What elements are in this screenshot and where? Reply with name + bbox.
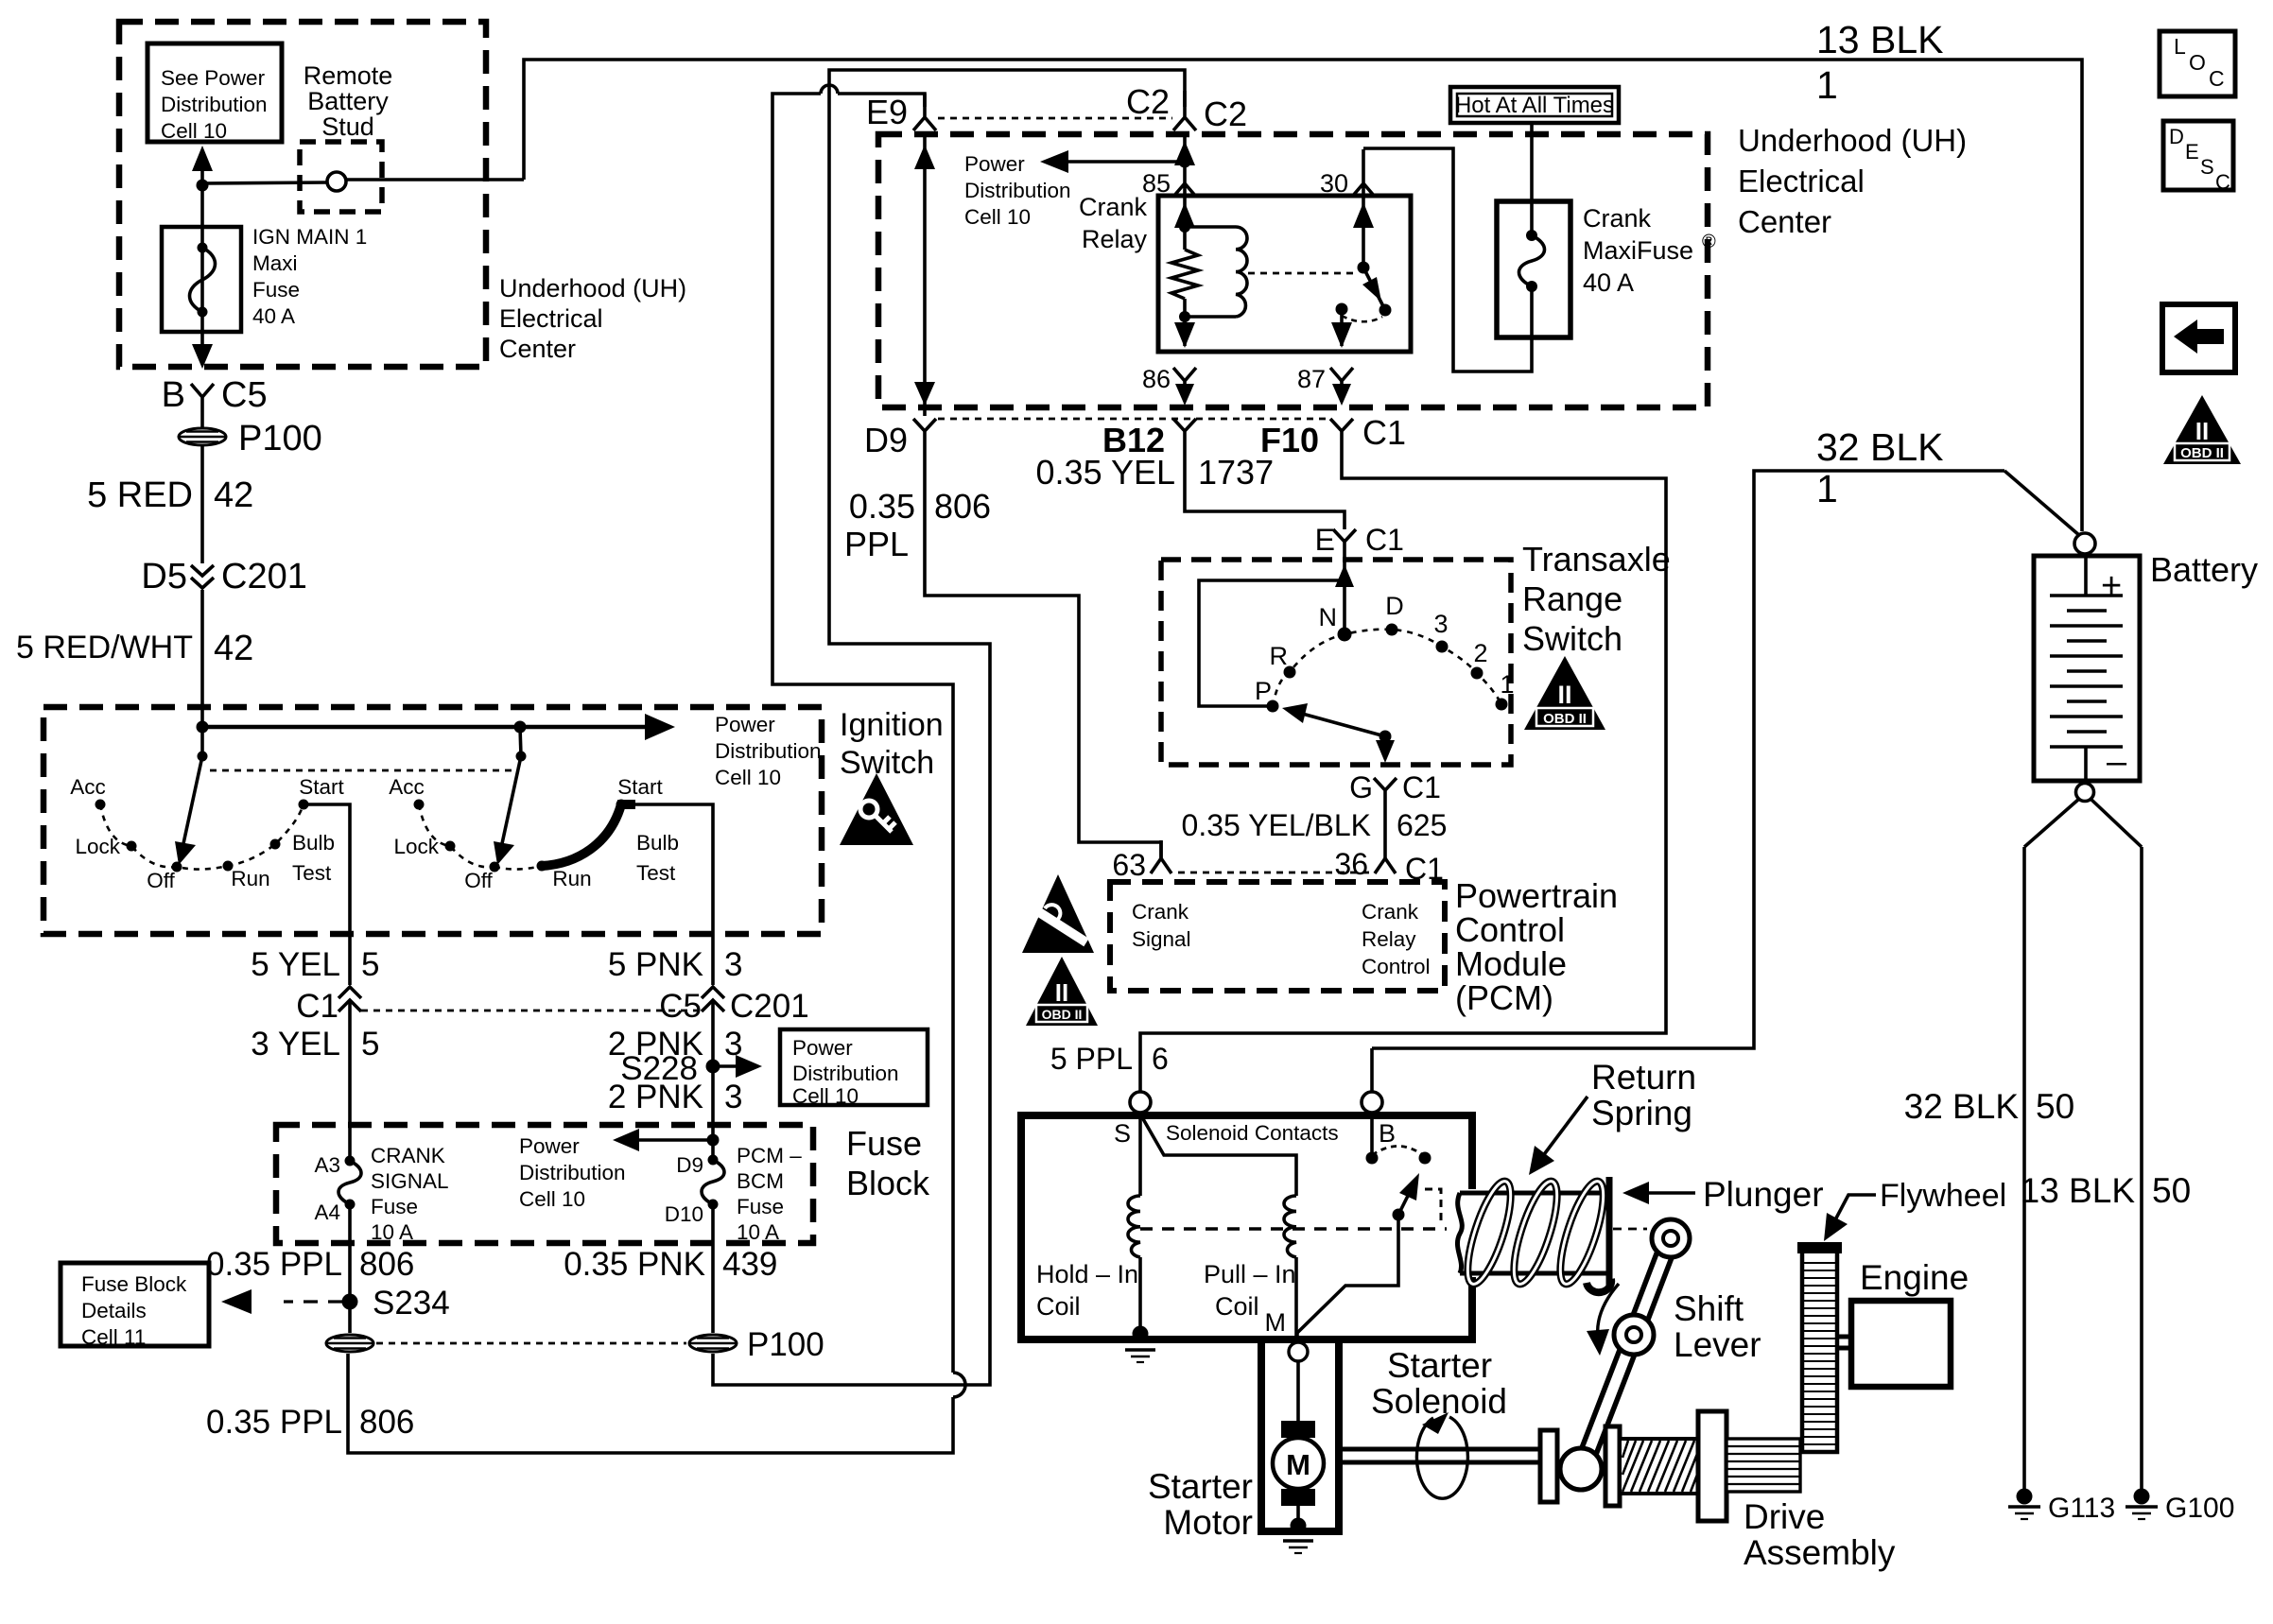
svg-text:Control: Control (1362, 955, 1431, 978)
svg-text:Motor: Motor (1163, 1503, 1253, 1542)
svg-text:C: C (2209, 66, 2225, 91)
svg-text:C1: C1 (1365, 523, 1404, 557)
svg-text:MaxiFuse: MaxiFuse (1583, 236, 1693, 265)
svg-text:C1: C1 (1362, 413, 1406, 452)
svg-text:Crank: Crank (1583, 204, 1652, 233)
svg-text:86: 86 (1142, 365, 1171, 393)
svg-text:13 BLK: 13 BLK (1816, 18, 1944, 61)
svg-text:E: E (1315, 523, 1335, 557)
svg-text:5 RED: 5 RED (87, 475, 193, 515)
svg-text:D: D (1385, 592, 1404, 620)
svg-text:C5: C5 (659, 988, 702, 1025)
svg-text:Fuse: Fuse (252, 278, 300, 302)
svg-text:Power: Power (715, 713, 775, 736)
svg-text:42: 42 (214, 475, 253, 515)
svg-text:Distribution: Distribution (792, 1062, 899, 1085)
svg-text:806: 806 (359, 1404, 414, 1441)
svg-text:87: 87 (1297, 365, 1326, 393)
svg-text:5 PNK: 5 PNK (608, 946, 703, 983)
svg-text:S: S (2200, 155, 2214, 179)
svg-text:Center: Center (1738, 204, 1831, 239)
svg-text:10 A: 10 A (737, 1220, 779, 1244)
svg-text:P100: P100 (238, 419, 322, 458)
svg-text:PPL: PPL (844, 525, 909, 563)
svg-text:5 RED/WHT: 5 RED/WHT (16, 630, 193, 665)
svg-text:Hot At All Times: Hot At All Times (1455, 93, 1614, 118)
svg-text:Maxi: Maxi (252, 251, 298, 275)
svg-text:Fuse: Fuse (846, 1124, 922, 1163)
svg-text:Battery: Battery (2150, 550, 2258, 589)
svg-text:3 YEL: 3 YEL (251, 1026, 340, 1063)
svg-text:E: E (2185, 140, 2199, 164)
svg-text:Block: Block (846, 1164, 930, 1202)
svg-text:Acc: Acc (70, 775, 106, 799)
svg-text:Powertrain: Powertrain (1455, 876, 1618, 915)
svg-text:Return: Return (1591, 1058, 1696, 1097)
svg-text:13 BLK: 13 BLK (2021, 1171, 2136, 1210)
svg-text:30: 30 (1320, 169, 1348, 198)
svg-text:OBD II: OBD II (2180, 445, 2224, 461)
svg-text:C5: C5 (221, 375, 268, 415)
svg-text:OBD II: OBD II (1543, 711, 1587, 727)
svg-text:Flywheel: Flywheel (1880, 1178, 2006, 1214)
svg-text:Switch: Switch (840, 745, 934, 781)
svg-text:Relay: Relay (1082, 225, 1148, 253)
svg-text:0.35 YEL: 0.35 YEL (1036, 453, 1175, 492)
svg-text:5: 5 (361, 946, 379, 983)
svg-text:40 A: 40 A (252, 304, 295, 328)
svg-text:Solenoid: Solenoid (1371, 1382, 1507, 1421)
svg-text:–: – (2107, 742, 2127, 782)
svg-text:806: 806 (359, 1246, 414, 1283)
svg-text:Underhood (UH): Underhood (UH) (499, 274, 686, 302)
svg-text:1: 1 (1816, 63, 1838, 107)
svg-text:II: II (2195, 417, 2209, 445)
svg-text:C1: C1 (1402, 770, 1441, 804)
svg-text:Cell 11: Cell 11 (81, 1325, 146, 1349)
svg-text:SIGNAL: SIGNAL (371, 1169, 449, 1193)
svg-text:D9: D9 (864, 421, 908, 459)
svg-text:G113: G113 (2048, 1493, 2115, 1524)
svg-text:II: II (1055, 978, 1068, 1007)
svg-text:O: O (2189, 50, 2206, 75)
svg-text:32 BLK: 32 BLK (1904, 1087, 2020, 1126)
svg-text:P: P (1255, 677, 1272, 705)
svg-text:Plunger: Plunger (1703, 1175, 1824, 1214)
svg-text:BCM: BCM (737, 1169, 784, 1193)
svg-text:B: B (162, 375, 185, 415)
svg-text:PCM –: PCM – (737, 1144, 802, 1167)
svg-text:+: + (2101, 566, 2122, 606)
svg-text:63: 63 (1112, 848, 1146, 882)
svg-text:40 A: 40 A (1583, 268, 1634, 297)
svg-text:806: 806 (934, 487, 991, 526)
svg-text:Details: Details (81, 1299, 147, 1322)
svg-text:Center: Center (499, 335, 576, 363)
svg-text:5: 5 (361, 1026, 379, 1063)
svg-text:Engine: Engine (1860, 1258, 1969, 1297)
svg-text:C: C (2215, 170, 2230, 194)
svg-text:G100: G100 (2165, 1493, 2234, 1524)
svg-text:See Power: See Power (161, 66, 266, 90)
svg-text:Range: Range (1522, 579, 1622, 618)
svg-text:Battery: Battery (307, 87, 389, 115)
svg-text:Power: Power (964, 152, 1025, 176)
svg-text:Stud: Stud (321, 112, 374, 141)
svg-text:Bulb: Bulb (636, 831, 679, 855)
svg-text:Cell 10: Cell 10 (519, 1187, 585, 1211)
svg-text:32 BLK: 32 BLK (1816, 425, 1944, 469)
svg-text:0.35 YEL/BLK: 0.35 YEL/BLK (1182, 808, 1371, 842)
svg-text:Off: Off (464, 869, 493, 892)
svg-text:Crank: Crank (1132, 900, 1189, 924)
svg-text:Coil: Coil (1215, 1292, 1259, 1321)
svg-text:Power: Power (519, 1134, 580, 1158)
svg-text:Module: Module (1455, 944, 1567, 983)
svg-text:Crank: Crank (1079, 193, 1148, 221)
svg-text:Lock: Lock (75, 835, 120, 858)
svg-text:Fuse: Fuse (737, 1195, 784, 1218)
svg-text:Starter: Starter (1387, 1346, 1492, 1385)
svg-text:10 A: 10 A (371, 1220, 413, 1244)
svg-text:R: R (1270, 642, 1289, 670)
svg-text:Solenoid Contacts: Solenoid Contacts (1166, 1121, 1339, 1145)
svg-text:5 YEL: 5 YEL (251, 946, 340, 983)
svg-text:G: G (1349, 770, 1373, 804)
svg-text:Start: Start (617, 775, 663, 799)
svg-text:42: 42 (214, 629, 253, 668)
svg-text:2: 2 (1473, 639, 1487, 667)
svg-text:Power: Power (792, 1036, 853, 1060)
svg-text:Control: Control (1455, 910, 1565, 949)
svg-text:Lock: Lock (393, 835, 439, 858)
svg-text:1737: 1737 (1198, 453, 1274, 492)
svg-text:D5: D5 (141, 557, 187, 596)
svg-text:1: 1 (1500, 670, 1514, 699)
svg-text:Distribution: Distribution (519, 1161, 626, 1184)
svg-text:Cell 10: Cell 10 (964, 205, 1031, 229)
svg-text:C1: C1 (296, 988, 338, 1025)
svg-text:Transaxle: Transaxle (1522, 540, 1671, 579)
svg-text:Spring: Spring (1591, 1094, 1692, 1132)
svg-text:D10: D10 (665, 1202, 703, 1226)
svg-text:Fuse Block: Fuse Block (81, 1272, 187, 1296)
svg-text:0.35 PPL: 0.35 PPL (206, 1404, 342, 1441)
svg-text:Run: Run (552, 867, 591, 890)
svg-text:Test: Test (636, 861, 676, 885)
svg-text:Starter: Starter (1148, 1467, 1253, 1506)
svg-text:50: 50 (2036, 1087, 2074, 1126)
svg-text:Pull – In: Pull – In (1204, 1260, 1296, 1288)
svg-text:B: B (1379, 1119, 1396, 1148)
svg-text:D9: D9 (676, 1153, 703, 1177)
svg-text:Shift: Shift (1674, 1289, 1744, 1328)
svg-text:OBD II: OBD II (1042, 1007, 1083, 1022)
svg-text:(PCM): (PCM) (1455, 978, 1553, 1017)
svg-text:3: 3 (1433, 610, 1448, 638)
svg-text:Ignition: Ignition (840, 707, 944, 743)
svg-text:C201: C201 (221, 557, 307, 596)
svg-text:S234: S234 (373, 1285, 450, 1322)
svg-text:S: S (1114, 1119, 1131, 1148)
svg-text:Remote: Remote (304, 61, 393, 90)
svg-text:P100: P100 (747, 1326, 824, 1363)
svg-text:Distribution: Distribution (715, 739, 822, 763)
svg-text:Cell 10: Cell 10 (792, 1084, 859, 1108)
svg-text:Relay: Relay (1362, 927, 1416, 951)
svg-text:Fuse: Fuse (371, 1195, 418, 1218)
svg-text:C201: C201 (730, 988, 809, 1025)
svg-text:Underhood (UH): Underhood (UH) (1738, 123, 1967, 158)
svg-text:®: ® (1702, 232, 1716, 252)
svg-text:0.35 PPL: 0.35 PPL (206, 1246, 342, 1283)
svg-text:M: M (1265, 1308, 1287, 1337)
svg-text:Assembly: Assembly (1744, 1533, 1896, 1572)
svg-text:IGN MAIN 1: IGN MAIN 1 (252, 225, 367, 249)
svg-text:439: 439 (722, 1246, 777, 1283)
svg-text:625: 625 (1397, 808, 1447, 842)
svg-text:A3: A3 (314, 1153, 340, 1177)
svg-text:L: L (2174, 34, 2186, 59)
svg-text:Crank: Crank (1362, 900, 1419, 924)
svg-text:1: 1 (1816, 467, 1838, 510)
svg-text:3: 3 (724, 1079, 742, 1115)
svg-text:50: 50 (2152, 1171, 2191, 1210)
svg-text:Distribution: Distribution (964, 179, 1071, 202)
svg-text:C2: C2 (1204, 95, 1247, 133)
svg-text:A4: A4 (314, 1201, 340, 1224)
svg-text:Run: Run (231, 867, 269, 890)
svg-text:3: 3 (724, 946, 742, 983)
svg-text:Switch: Switch (1522, 619, 1622, 658)
svg-text:CRANK: CRANK (371, 1144, 445, 1167)
svg-text:II: II (1557, 681, 1571, 709)
svg-text:0.35: 0.35 (849, 487, 915, 526)
svg-text:Cell 10: Cell 10 (715, 766, 781, 789)
svg-text:E9: E9 (866, 93, 908, 131)
svg-text:Distribution: Distribution (161, 93, 268, 116)
svg-text:Hold – In: Hold – In (1036, 1260, 1138, 1288)
svg-text:M: M (1286, 1448, 1310, 1481)
svg-text:Lever: Lever (1674, 1325, 1761, 1364)
svg-text:5 PPL: 5 PPL (1050, 1042, 1133, 1076)
svg-text:Off: Off (147, 869, 175, 892)
svg-text:6: 6 (1152, 1042, 1169, 1076)
svg-text:Signal: Signal (1132, 927, 1191, 951)
svg-text:Coil: Coil (1036, 1292, 1081, 1321)
svg-text:Bulb: Bulb (292, 831, 335, 855)
svg-text:Start: Start (299, 775, 344, 799)
svg-text:36: 36 (1334, 847, 1368, 881)
svg-text:Drive: Drive (1744, 1497, 1825, 1536)
svg-text:Cell 10: Cell 10 (161, 119, 227, 143)
svg-text:Electrical: Electrical (499, 304, 603, 333)
svg-text:D: D (2169, 125, 2184, 148)
svg-text:Acc: Acc (389, 775, 425, 799)
svg-text:2 PNK: 2 PNK (608, 1079, 703, 1115)
svg-text:C2: C2 (1126, 82, 1170, 121)
svg-text:Test: Test (292, 861, 332, 885)
svg-text:N: N (1319, 603, 1338, 631)
svg-text:0.35 PNK: 0.35 PNK (564, 1246, 705, 1283)
svg-text:Electrical: Electrical (1738, 164, 1865, 199)
